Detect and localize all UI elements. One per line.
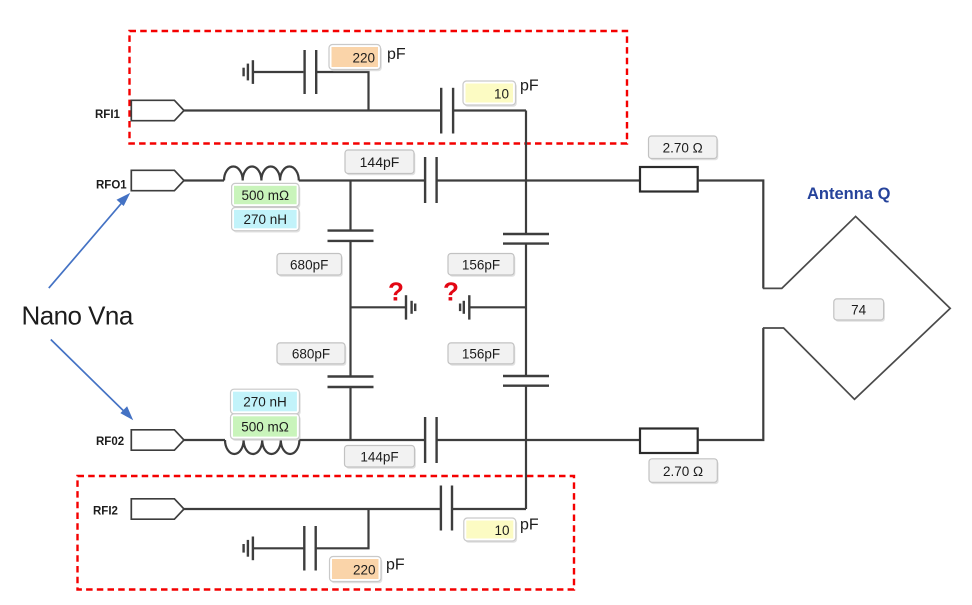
value box 156pF (lower) xyxy=(448,343,515,366)
value box 680pF (upper) xyxy=(277,254,343,277)
value box 500 mOhm (RFO1) xyxy=(232,183,301,208)
svg-text:RF02: RF02 xyxy=(96,436,124,448)
value box 500 mOhm (RFO2) xyxy=(231,414,301,441)
port RFI2 xyxy=(131,499,184,519)
wire resistor to corner, down to antenna xyxy=(698,181,764,289)
svg-text:2.70 Ω: 2.70 Ω xyxy=(663,464,703,479)
wire C144 to resistor xyxy=(437,179,640,181)
label RFI1 xyxy=(95,109,121,121)
value box 220 (top) xyxy=(329,45,382,72)
right shunt rail xyxy=(525,111,527,510)
ground (mid right) xyxy=(460,295,469,319)
wire 10pF to right rail xyxy=(453,109,526,111)
wire resistor to corner, up to antenna (bottom) xyxy=(698,328,764,440)
capacitor 680pF (upper shunt) xyxy=(328,231,374,241)
capacitor 10pF (RFI2 series) xyxy=(441,486,452,531)
svg-text:10: 10 xyxy=(494,523,509,538)
capacitor 220pF (RFI1 branch) xyxy=(305,50,317,94)
port RFI1 xyxy=(131,100,184,120)
capacitor 220pF (RFI2 branch) xyxy=(304,526,315,571)
svg-text:?: ? xyxy=(388,277,404,307)
svg-text:156pF: 156pF xyxy=(462,258,500,273)
port RFO1 xyxy=(131,170,184,190)
wire junction down to branch (RFI2) xyxy=(317,509,369,548)
wire C-top to junction xyxy=(316,72,368,111)
resistor R2 2.70 Ohm (bottom) xyxy=(640,429,698,454)
value box 144pF (top) xyxy=(345,150,415,175)
label RFO1 xyxy=(96,180,127,192)
ground (RFI2 branch) xyxy=(244,537,253,561)
wire 10pF to right rail (bottom) xyxy=(452,508,526,510)
label RFI2 xyxy=(93,506,118,518)
unit label pF (top 10) xyxy=(520,78,539,95)
enclosure dashed box RFI1 network xyxy=(130,31,628,144)
value box 2.70 Ohm (top) xyxy=(649,136,719,160)
value box 10 (top) xyxy=(463,81,517,107)
svg-text:680pF: 680pF xyxy=(292,347,330,362)
value box 74 (antenna Q) xyxy=(834,299,885,322)
wire RFO1 port to inductor xyxy=(184,179,224,181)
wire mid ground right tee xyxy=(469,306,526,308)
antenna diamond xyxy=(763,216,950,399)
wire RFI1 main xyxy=(184,109,440,111)
wire inductor to C 144pF (bottom) xyxy=(299,439,424,441)
value box 10 (bottom) xyxy=(464,518,517,543)
svg-text:Nano Vna: Nano Vna xyxy=(22,301,134,331)
svg-text:Antenna Q: Antenna Q xyxy=(807,185,891,203)
wire C to ground (RFI2 branch) xyxy=(253,547,304,549)
svg-text:144pF: 144pF xyxy=(360,450,398,465)
svg-text:RFI1: RFI1 xyxy=(95,109,121,121)
svg-text:220: 220 xyxy=(352,51,375,66)
svg-text:270 nH: 270 nH xyxy=(243,395,287,410)
wire inductor to C 144pF xyxy=(299,179,424,181)
port RFO2 xyxy=(131,430,184,450)
svg-text:156pF: 156pF xyxy=(462,347,500,362)
ground (mid left) xyxy=(406,295,415,319)
value box 270 nH (RFO2) xyxy=(231,389,301,415)
svg-text:pF: pF xyxy=(520,78,539,95)
svg-text:pF: pF xyxy=(520,517,539,534)
question mark (left) xyxy=(388,277,404,307)
svg-text:680pF: 680pF xyxy=(290,258,328,273)
unit label pF (bottom 220) xyxy=(386,557,405,574)
wire C144 to resistor (bottom) xyxy=(437,439,640,441)
value box 680pF (lower) xyxy=(277,343,346,366)
question mark (right) xyxy=(443,277,459,307)
svg-text:220: 220 xyxy=(353,563,376,578)
resistor R1 2.70 Ohm (top) xyxy=(640,167,698,192)
svg-text:500 mΩ: 500 mΩ xyxy=(241,188,289,203)
wire RFI2 main xyxy=(184,508,440,510)
left shunt rail xyxy=(349,181,351,441)
inductor L2 (RFO2) xyxy=(225,440,299,454)
value box 156pF (upper) xyxy=(448,254,515,277)
svg-text:74: 74 xyxy=(851,303,867,318)
svg-text:?: ? xyxy=(443,277,459,307)
svg-text:10: 10 xyxy=(494,87,509,102)
svg-text:pF: pF xyxy=(386,557,405,574)
unit label pF (top 220) xyxy=(387,46,406,63)
arrow to RFO1 xyxy=(49,193,130,288)
wire RFO2 port to inductor xyxy=(184,439,225,441)
ground (RFI1 branch) xyxy=(244,60,253,84)
svg-text:RFI2: RFI2 xyxy=(93,506,118,518)
svg-text:2.70 Ω: 2.70 Ω xyxy=(663,141,703,156)
value box 220 (bottom) xyxy=(330,557,383,584)
capacitor 680pF (lower shunt) xyxy=(328,377,374,388)
capacitor 144pF (RFO2 series) xyxy=(425,417,437,463)
inductor L1 (RFO1) xyxy=(224,167,299,181)
value box 270 nH (RFO1) xyxy=(232,208,301,233)
capacitor 156pF (upper shunt) xyxy=(503,234,549,244)
svg-text:RFO1: RFO1 xyxy=(96,180,127,192)
svg-text:pF: pF xyxy=(387,46,406,63)
label Nano Vna xyxy=(22,301,134,331)
wire ground to C-top xyxy=(253,71,304,73)
svg-text:500 mΩ: 500 mΩ xyxy=(241,420,289,435)
capacitor 156pF (lower shunt) xyxy=(503,376,549,386)
label Antenna Q xyxy=(807,185,891,203)
unit label pF (bottom 10) xyxy=(520,517,539,534)
capacitor 144pF (RFO1 series) xyxy=(425,157,437,203)
wire mid ground left tee xyxy=(351,306,407,308)
svg-text:270 nH: 270 nH xyxy=(244,212,288,227)
capacitor 10pF (RFI1 series) xyxy=(441,88,453,134)
svg-text:144pF: 144pF xyxy=(360,154,400,170)
enclosure dashed box RFI2 network xyxy=(78,476,575,590)
value box 144pF (bottom) xyxy=(345,446,416,469)
label RFO2 xyxy=(96,436,124,448)
arrow to RFO2 xyxy=(51,340,133,421)
value box 2.70 Ohm (bottom) xyxy=(649,459,719,484)
